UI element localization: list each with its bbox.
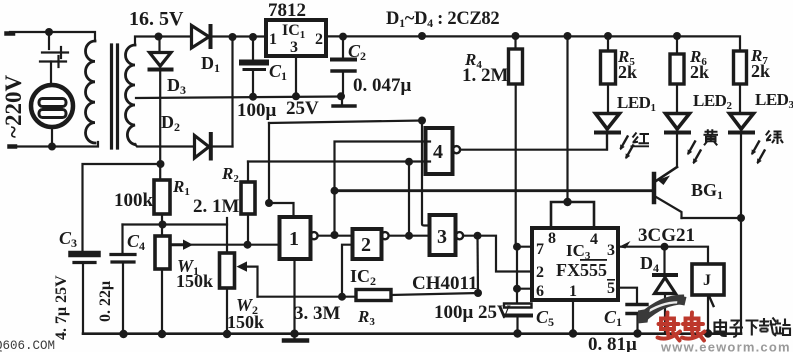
watermark swoosh xyxy=(638,296,687,324)
node C2 top junction xyxy=(339,33,347,41)
relay tick xyxy=(710,297,714,306)
node top rail R4 xyxy=(512,32,520,40)
LED LED1 xyxy=(596,114,620,150)
svg-text:0. 81μ: 0. 81μ xyxy=(588,334,637,352)
node secondary top tap xyxy=(155,33,163,41)
svg-text:IC3: IC3 xyxy=(566,241,591,262)
wire D1-D2 cathodes vertical xyxy=(231,37,233,147)
wire secondary center tap rail xyxy=(136,97,341,99)
svg-text:2: 2 xyxy=(536,264,544,281)
svg-text:LED3: LED3 xyxy=(755,90,793,111)
svg-text:FX555: FX555 xyxy=(556,260,607,280)
svg-text:C1: C1 xyxy=(604,307,622,329)
svg-text:3: 3 xyxy=(607,242,615,259)
wire gate2 input2 drop xyxy=(342,245,352,297)
IC3 FX555 box xyxy=(532,228,618,300)
arrow on pin3 wire xyxy=(619,241,631,249)
node gate1 output junction xyxy=(331,231,339,239)
resistor R7 xyxy=(734,51,747,112)
LED1 light arrows xyxy=(620,137,633,160)
node rail 555 pin1 xyxy=(569,329,577,337)
wire LED3 line down to bottom rail xyxy=(740,218,742,334)
gate 3 output bubble xyxy=(456,232,463,239)
node R3 left junction xyxy=(338,293,346,301)
svg-text:3CG21: 3CG21 xyxy=(638,225,695,246)
resistor R5 xyxy=(601,36,616,112)
wire W2 wiper to R3 xyxy=(258,296,357,298)
wire gate3 enable drop xyxy=(422,121,429,226)
svg-text:D3: D3 xyxy=(167,75,186,97)
svg-text:2: 2 xyxy=(315,31,323,48)
wire R1 bottom to C4 and W2 xyxy=(123,223,228,225)
svg-text:C4: C4 xyxy=(127,231,145,253)
wire BG1 emitter to rail xyxy=(682,217,742,219)
gate 4 (IC2d) box xyxy=(426,128,453,174)
svg-text:D4: D4 xyxy=(640,253,659,275)
gate 2 output bubble xyxy=(381,232,388,239)
node top rail R6 xyxy=(673,32,681,40)
ground below C2 xyxy=(333,96,355,106)
resistor R4 xyxy=(509,36,523,247)
capacitor C3 xyxy=(72,254,98,334)
wire relay J to rail xyxy=(707,295,709,334)
wire lamp bottom xyxy=(51,127,53,146)
wire secondary top to D1 xyxy=(135,37,191,46)
svg-text:C5: C5 xyxy=(536,307,554,329)
node D1 cathode junction xyxy=(229,33,237,41)
node top rail 555 supply xyxy=(564,32,572,40)
wire 555 pin8-pin4 bridge xyxy=(551,202,594,228)
svg-text:Q606.COM: Q606.COM xyxy=(0,339,55,352)
LED2 light arrows xyxy=(688,142,701,165)
wire BG1 base line xyxy=(335,189,653,192)
svg-text:150k: 150k xyxy=(176,271,213,291)
fuse/switch symbol mains xyxy=(40,32,68,84)
svg-text:100k: 100k xyxy=(114,190,154,211)
wire gate1 top feed xyxy=(269,121,422,124)
potentiometer W1 xyxy=(155,225,279,334)
transformer T core xyxy=(112,45,118,148)
node top rail R5 xyxy=(604,32,612,40)
svg-text:4. 7μ 25V: 4. 7μ 25V xyxy=(53,275,70,340)
capacitor C2 xyxy=(332,37,355,97)
node rail W1 xyxy=(158,330,166,338)
op-amp IC1 7812 regulator box xyxy=(266,20,326,56)
wire 555 pin7 xyxy=(517,246,532,248)
node C1 bottom junction xyxy=(249,93,257,101)
svg-text:3: 3 xyxy=(437,226,447,248)
node W1 wiper R2 junction xyxy=(244,241,252,249)
label red char hong xyxy=(631,133,650,147)
wire gate3-out to R3 drop xyxy=(476,236,479,293)
diode D4 xyxy=(654,247,676,334)
wire gate3 output to 555 pin2 xyxy=(463,236,532,272)
node R1 bottom junction xyxy=(159,221,167,229)
svg-text:4: 4 xyxy=(433,141,443,163)
wire gate4 output to LED1 xyxy=(460,135,607,150)
node D3-R1-C3 junction xyxy=(157,160,165,168)
svg-text:0. 22μ: 0. 22μ xyxy=(97,281,114,322)
node rail C6 xyxy=(633,329,641,337)
wire secondary bottom to D2 xyxy=(135,144,194,147)
node C2 gnd junction xyxy=(337,92,345,100)
capacitor C5 xyxy=(504,304,532,334)
svg-text:7: 7 xyxy=(536,241,544,258)
wire mains top xyxy=(10,32,95,41)
svg-text:100μ: 100μ xyxy=(237,100,277,121)
node C1 top junction xyxy=(249,33,257,41)
svg-text:100μ 25V: 100μ 25V xyxy=(434,302,511,323)
svg-text:R1: R1 xyxy=(172,177,190,198)
node R3 right junction xyxy=(474,289,482,297)
svg-text:2. 1M: 2. 1M xyxy=(193,196,240,217)
node 555 pin7 junction xyxy=(513,243,521,251)
node mains top junction xyxy=(45,28,53,36)
svg-text:2k: 2k xyxy=(751,61,770,81)
watermark bug char 2 xyxy=(682,313,705,341)
wire gate1 top drop xyxy=(268,123,270,203)
label yellow char huang xyxy=(704,129,719,145)
watermark bug char 1 xyxy=(658,313,681,341)
svg-text:D2: D2 xyxy=(161,112,180,134)
gate 2 (IC2b) box xyxy=(353,229,382,259)
svg-text:25V: 25V xyxy=(286,98,319,119)
resistor R3 xyxy=(356,290,478,301)
diode D2 xyxy=(195,134,233,159)
node gate1 top input junction xyxy=(265,199,273,207)
node BG1 base line start xyxy=(331,187,339,195)
svg-text:R2: R2 xyxy=(221,164,239,185)
svg-text:BG1: BG1 xyxy=(691,180,723,202)
svg-text:2k: 2k xyxy=(690,62,709,82)
svg-text:0. 047μ: 0. 047μ xyxy=(353,75,412,96)
wire gate2 output xyxy=(389,235,429,237)
potentiometer W2 xyxy=(220,253,258,334)
svg-text:www.eeworm.com: www.eeworm.com xyxy=(660,340,791,352)
svg-text:6: 6 xyxy=(536,283,544,300)
node rail relay xyxy=(704,329,712,337)
transformer T primary winding xyxy=(86,41,96,143)
diode D3 xyxy=(150,37,172,181)
node gate4 input2 to gate3 drop xyxy=(405,158,413,166)
LED LED2 xyxy=(666,114,690,168)
gate 3 (IC2c) box xyxy=(430,215,456,255)
svg-text:LED1: LED1 xyxy=(617,93,655,114)
svg-text:~220V: ~220V xyxy=(1,75,26,138)
node mains bottom junction xyxy=(48,143,56,151)
wire W2 top drop xyxy=(226,218,228,253)
svg-text:R3: R3 xyxy=(357,307,375,328)
wire IC1 output / +12V top rail xyxy=(326,36,740,51)
node 555 pin6 junction xyxy=(513,285,521,293)
wire mains bottom xyxy=(12,142,98,147)
node gate1 top feed corner xyxy=(418,117,426,125)
svg-text:2: 2 xyxy=(361,234,371,256)
gate 1 output bubble xyxy=(310,232,317,239)
svg-text:4: 4 xyxy=(590,231,598,248)
watermark text dianzi xiazaizhan xyxy=(715,318,791,337)
node 555 pin8/4 bridge junction xyxy=(563,198,571,206)
transistor BG1 xyxy=(654,167,682,218)
wire gate1 output xyxy=(318,235,352,237)
svg-text:8: 8 xyxy=(548,230,556,247)
svg-text:1: 1 xyxy=(289,228,299,250)
wire gate1 top input L xyxy=(269,203,294,217)
node rail C5 xyxy=(513,329,521,337)
svg-text:C2: C2 xyxy=(348,41,366,63)
capacitor C6 xyxy=(627,305,647,334)
svg-text:1. 2M: 1. 2M xyxy=(462,65,509,86)
wire 555 pin6 xyxy=(517,288,532,290)
resistor R6 xyxy=(670,36,684,112)
node rail gate1 xyxy=(290,330,298,338)
gate 4 output bubble xyxy=(453,146,460,153)
wire R2 top to gate4 input2 xyxy=(248,160,430,162)
svg-text:3. 3M: 3. 3M xyxy=(294,303,341,324)
svg-text:150k: 150k xyxy=(227,312,264,332)
wire 555 supply drop xyxy=(566,36,568,202)
wire bottom ground rail xyxy=(83,332,741,335)
svg-text:D1: D1 xyxy=(201,53,220,75)
relay J box xyxy=(692,264,724,295)
label green char lv xyxy=(766,131,783,145)
capacitor C4 xyxy=(111,225,135,334)
svg-text:2k: 2k xyxy=(618,62,637,82)
capacitor C1 xyxy=(242,37,266,97)
svg-text:1: 1 xyxy=(569,283,577,300)
node rail W2 xyxy=(223,330,231,338)
svg-text:5: 5 xyxy=(607,280,615,297)
LED3 light arrows xyxy=(752,142,765,165)
transformer T secondary winding xyxy=(126,45,136,145)
svg-text:C3: C3 xyxy=(59,228,77,250)
wire 555 pin3 to relay xyxy=(618,247,708,264)
svg-text:IC2: IC2 xyxy=(350,266,376,288)
wire gate2 output drop xyxy=(408,162,410,236)
svg-text:7812: 7812 xyxy=(268,0,306,21)
node gate2 output junction xyxy=(405,232,413,240)
wire 555 pin7-pin6-C5 vertical xyxy=(516,247,518,303)
svg-text:CH4011: CH4011 xyxy=(412,273,477,294)
svg-text:LED2: LED2 xyxy=(693,91,732,112)
node top rail to gate1-top drop xyxy=(418,32,426,40)
wire IC1 pin3 down xyxy=(295,56,297,96)
node emitter LED3 junction xyxy=(737,214,745,222)
diode D1 xyxy=(192,26,267,49)
node rail C4 xyxy=(119,330,127,338)
node IC1 pin3 gnd junction xyxy=(292,92,300,100)
resistor R2 xyxy=(241,162,255,245)
wire C3 branch xyxy=(83,164,161,250)
wire 555 pin1 to rail xyxy=(572,300,574,334)
svg-text:16. 5V: 16. 5V xyxy=(129,8,184,30)
wire gate1-out up to gate4 input1 xyxy=(335,142,431,236)
node pin3 D4 junction xyxy=(661,243,669,251)
ground below gate1 xyxy=(284,334,307,341)
resistor R1 xyxy=(154,180,170,225)
svg-text:1: 1 xyxy=(269,31,277,48)
wire 555 pin5 to C6 xyxy=(618,288,637,303)
node gate3 output junction xyxy=(474,232,482,240)
svg-text:J: J xyxy=(703,272,711,289)
svg-text:D1~D4 : 2CZ82: D1~D4 : 2CZ82 xyxy=(386,9,499,30)
neon lamp / socket symbol xyxy=(31,85,73,127)
LED LED3 xyxy=(730,114,754,219)
gate 1 (IC2a) box xyxy=(280,217,311,259)
svg-text:C1: C1 xyxy=(269,61,287,83)
wire gate1 bottom to ground xyxy=(293,259,295,334)
svg-text:3: 3 xyxy=(290,39,298,56)
